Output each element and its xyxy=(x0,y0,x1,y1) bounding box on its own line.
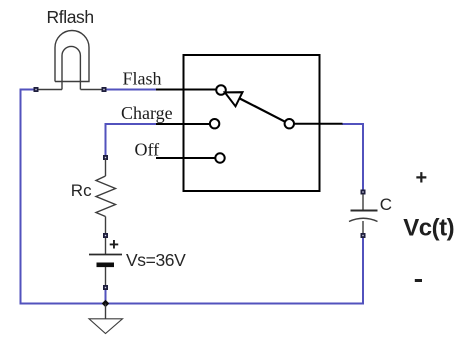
svg-text:Charge: Charge xyxy=(121,103,173,123)
wire: flash row left segment (blue) xyxy=(21,89,36,91)
wire: flash row right segment (lamp to switch pin) xyxy=(104,89,157,91)
wire: bottom horizontal rail xyxy=(20,303,365,305)
switch contact Charge xyxy=(210,119,219,128)
svg-text:Off: Off xyxy=(135,140,160,160)
capacitor C curved plate xyxy=(349,218,378,221)
switch box U1 xyxy=(184,55,320,191)
svg-text:C: C xyxy=(380,195,392,214)
switch pin line Charge xyxy=(156,123,210,125)
switch common pin line xyxy=(294,123,343,125)
battery Vs long plate xyxy=(89,254,122,256)
battery Vs short thick plate xyxy=(97,263,115,268)
node: lamp left terminal xyxy=(34,87,39,92)
svg-text:+: + xyxy=(109,235,119,254)
switch pin line Off xyxy=(156,157,215,159)
ground symbol xyxy=(89,319,123,334)
switch arm arrow head xyxy=(225,92,243,106)
node: lamp right terminal xyxy=(102,87,107,92)
switch contact Off xyxy=(215,153,224,162)
capacitor C top lead xyxy=(362,194,364,210)
switch arm wiper line xyxy=(240,99,285,122)
capacitor C top plate xyxy=(351,210,378,212)
resistor Rc zigzag xyxy=(96,176,116,217)
svg-text:Vc(t): Vc(t) xyxy=(403,215,454,242)
node: battery minus terminal xyxy=(103,285,108,290)
lamp Rflash inner filament loop xyxy=(62,46,80,89)
lamp Rflash outer envelope xyxy=(55,31,89,82)
wire: right vertical lower (capacitor to bottom rail) xyxy=(362,237,364,305)
svg-text:Vs=36V: Vs=36V xyxy=(126,250,186,270)
switch common contact xyxy=(285,119,294,128)
switch pin line Flash xyxy=(156,89,217,91)
switch contact Flash xyxy=(216,85,226,95)
resistor Rc top lead xyxy=(105,159,107,176)
lamp Rflash pin left xyxy=(37,89,62,91)
ground lead xyxy=(105,304,107,319)
svg-text:Rc: Rc xyxy=(71,181,92,200)
node: capacitor bottom terminal xyxy=(361,233,366,238)
wire: common pole to capacitor top xyxy=(342,124,363,191)
node: capacitor top terminal xyxy=(361,190,366,195)
battery Vs plus lead xyxy=(105,238,107,254)
label minus (capacitor polarity) xyxy=(415,279,422,282)
wire: charge row (switch pin to resistor top) xyxy=(106,124,158,157)
svg-text:Flash: Flash xyxy=(123,69,162,89)
battery Vs minus lead xyxy=(105,267,107,285)
wire: left vertical rail xyxy=(20,89,22,304)
svg-text:Rflash: Rflash xyxy=(47,7,94,27)
capacitor C bottom lead xyxy=(362,221,364,233)
wire: battery minus to junction xyxy=(105,287,107,304)
node: battery plus terminal xyxy=(103,233,108,238)
junction dot (diamond) at ground tap xyxy=(102,300,110,308)
resistor Rc bottom lead xyxy=(105,217,107,234)
node: resistor top terminal xyxy=(103,155,108,160)
svg-text:+: + xyxy=(416,167,428,189)
lamp Rflash pin right xyxy=(81,89,105,91)
